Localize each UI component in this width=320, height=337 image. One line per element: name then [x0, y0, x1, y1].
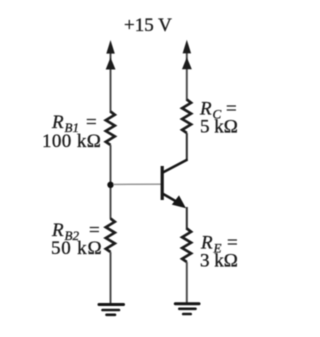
transistor Q1: [162, 160, 187, 209]
transistor emitter lead: [163, 194, 182, 205]
svg-text:3 kΩ: 3 kΩ: [200, 251, 238, 272]
wire left rail RB1 to RB2: [110, 145, 112, 219]
svg-text:=: =: [86, 112, 97, 133]
wire base wire from node to transistor base: [113, 183, 161, 185]
wire collector vertical: [186, 133, 188, 160]
wire left supply arrowhead 2: [106, 57, 116, 69]
resistor RE: [182, 229, 191, 263]
label RC: [199, 99, 238, 138]
resistor RB2: [106, 219, 115, 253]
svg-text:5 kΩ: 5 kΩ: [200, 117, 238, 138]
label RB1: [42, 112, 101, 152]
wire left rail RB2 to ground: [110, 252, 112, 304]
wire left supply arrowhead 1: [106, 40, 115, 54]
label RE: [200, 233, 238, 272]
wire right supply rail upper segment: [186, 44, 188, 101]
node junction dot: [107, 182, 113, 188]
svg-text:+15 V: +15 V: [124, 15, 172, 36]
svg-text:100 kΩ: 100 kΩ: [42, 131, 101, 152]
resistor RB1: [106, 112, 115, 146]
ground left: [99, 305, 124, 315]
svg-text:R: R: [51, 112, 64, 133]
wire right supply arrowhead 1: [183, 40, 192, 54]
wire right rail RE to ground: [186, 262, 188, 303]
transistor collector lead: [163, 160, 188, 173]
wire emitter vertical: [186, 207, 188, 230]
transistor base bar: [161, 166, 164, 200]
label RB2: [51, 220, 102, 259]
transistor emitter arrowhead: [172, 195, 186, 208]
resistor RC: [182, 100, 191, 134]
svg-text:50 kΩ: 50 kΩ: [51, 238, 102, 259]
wire left supply rail upper segment: [110, 44, 112, 113]
ground right: [175, 304, 199, 314]
wire right supply arrowhead 2: [182, 57, 192, 69]
